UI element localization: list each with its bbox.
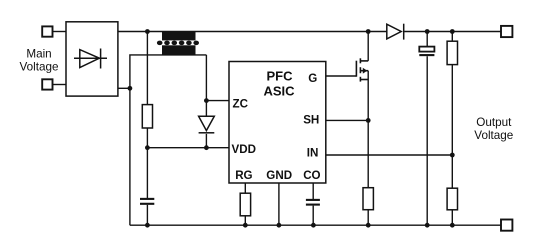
wire R2 to ground rail xyxy=(367,210,369,226)
pin stub CO xyxy=(312,183,314,199)
label Output Voltage xyxy=(474,116,513,142)
junction IN node xyxy=(450,153,455,158)
junction rail R5 xyxy=(450,223,455,228)
junction rail C3 xyxy=(425,223,430,228)
junction SH node xyxy=(366,118,371,123)
junction rail R2 xyxy=(366,223,371,228)
wire bridge bottom output xyxy=(118,87,130,89)
svg-text:Voltage: Voltage xyxy=(20,61,59,74)
svg-text:PFC: PFC xyxy=(267,68,294,83)
wire G pin to gate xyxy=(326,75,357,77)
junction D2-VDD node xyxy=(204,145,209,150)
wire ground rail xyxy=(130,224,501,226)
wire R5 to ground rail xyxy=(451,210,453,225)
terminal T3 output top xyxy=(501,26,512,37)
bridge rectifier diode symbol xyxy=(74,49,107,69)
wire node A down to R1 xyxy=(146,32,148,105)
junction C3 top node xyxy=(425,29,430,34)
junction VDD-C1 node xyxy=(145,145,150,150)
svg-text:G: G xyxy=(308,72,317,85)
svg-text:ZC: ZC xyxy=(233,97,249,110)
wire aux to ZC node xyxy=(205,55,207,116)
svg-text:VDD: VDD xyxy=(232,143,256,156)
node A junction (startup branch) xyxy=(145,29,150,34)
wire R3 to ground rail xyxy=(244,216,246,225)
diode D1 boost xyxy=(387,24,404,40)
IC U1 labels xyxy=(263,68,295,98)
terminal T4 output bottom xyxy=(501,220,512,231)
junction ZC node xyxy=(204,98,209,103)
label Main Voltage xyxy=(20,48,59,74)
wire top rail: bridge to boost diode anode xyxy=(118,31,387,33)
junction rail R3 xyxy=(243,223,248,228)
IC U1 PFC ASIC box xyxy=(229,62,326,184)
wire D1 cathode to output terminal xyxy=(404,31,501,33)
resistor R5 divider lower xyxy=(447,188,457,210)
wire IN pin to divider xyxy=(326,154,453,156)
svg-text:Output: Output xyxy=(476,116,512,129)
wire IN node to R5 xyxy=(451,155,453,188)
wire SH pin to source xyxy=(326,119,368,121)
capacitor C3 output bulk electrolytic xyxy=(419,47,434,56)
svg-text:Voltage: Voltage xyxy=(474,129,513,142)
wire D2 to VDD line xyxy=(205,134,207,148)
diode D2 VDD charge xyxy=(199,116,215,133)
terminal T2 mains bottom xyxy=(42,79,52,89)
junction rail GND xyxy=(277,223,282,228)
svg-text:IN: IN xyxy=(307,147,319,160)
resistor R1 startup xyxy=(142,105,152,128)
wire ZC node to ASIC xyxy=(206,100,229,102)
wire VDD line to ASIC xyxy=(147,147,229,149)
resistor R3 gate resistor xyxy=(240,193,250,216)
svg-text:Main: Main xyxy=(26,48,51,61)
bridge rectifier B1 box xyxy=(66,22,118,96)
resistor R2 sense xyxy=(363,188,373,210)
resistor R4 divider upper xyxy=(447,41,457,64)
wire aux winding return xyxy=(130,55,207,225)
inductor L1 boost choke with aux winding xyxy=(157,32,199,55)
wire top to R4 xyxy=(451,32,453,42)
svg-text:RG: RG xyxy=(235,169,252,182)
capacitor C2 compensation xyxy=(306,200,320,205)
pin stub GND to rail xyxy=(278,183,280,225)
wire T1 to bridge xyxy=(53,31,67,33)
wire R1 to VDD node xyxy=(146,128,148,148)
pin stub RG xyxy=(244,183,246,193)
wire drain to top rail xyxy=(367,32,369,61)
svg-text:ASIC: ASIC xyxy=(263,83,295,98)
junction drain node xyxy=(366,29,371,34)
wire R4 to IN node xyxy=(451,65,453,155)
wire top to C3 xyxy=(426,32,428,47)
junction bridge-return node xyxy=(127,86,132,91)
junction rail C1 xyxy=(145,223,150,228)
terminal T1 mains top xyxy=(42,26,52,36)
junction rail C2 xyxy=(311,223,316,228)
svg-text:SH: SH xyxy=(303,114,319,127)
capacitor C1 VDD xyxy=(140,199,154,204)
svg-text:CO: CO xyxy=(303,169,320,182)
wire C2 to ground rail xyxy=(312,206,314,226)
wire C1 to ground rail xyxy=(146,205,148,225)
wire T2 to bridge xyxy=(53,84,67,86)
junction divider top node xyxy=(450,29,455,34)
transistor Q1 MOSFET xyxy=(356,58,368,81)
wire C3 to ground rail xyxy=(426,56,428,225)
svg-text:GND: GND xyxy=(266,169,292,182)
wire source down to R2 xyxy=(367,71,369,188)
wire VDD node to C1 xyxy=(146,148,148,198)
